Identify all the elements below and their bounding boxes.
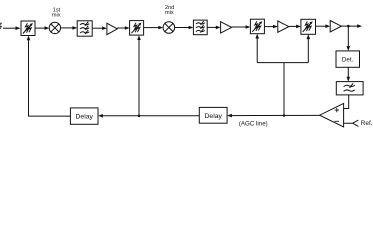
svg-text:Delay: Delay [76,113,94,120]
svg-text:Ref.: Ref. [361,120,373,127]
svg-text:(AGC line): (AGC line) [239,120,268,127]
svg-text:mix: mix [165,10,174,16]
svg-text:mix: mix [52,12,61,18]
svg-text:Delay: Delay [205,113,223,120]
svg-text:Det.: Det. [342,56,354,63]
